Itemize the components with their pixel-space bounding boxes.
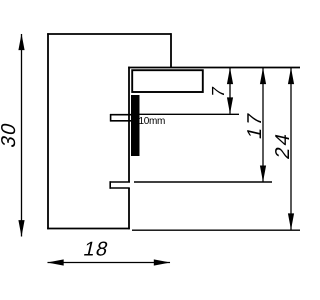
svg-text:30: 30 [0,120,20,150]
svg-text:10mm: 10mm [139,116,166,127]
svg-text:24: 24 [272,129,294,161]
svg-text:18: 18 [81,239,111,261]
svg-text:17: 17 [244,109,266,141]
